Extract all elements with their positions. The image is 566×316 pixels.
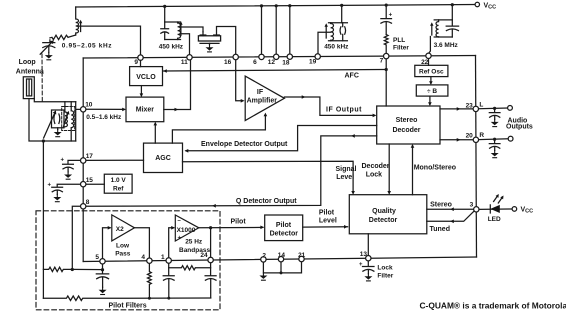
loop antenna symbol: [23, 77, 34, 99]
resonator right electrode: [214, 27, 236, 55]
terminal Vcc right: [512, 207, 517, 212]
ground below resonator: [209, 43, 211, 44]
wire pin 3 to Vcc via LED: [479, 208, 512, 210]
wire Pilot Level to Quality Detector: [303, 226, 348, 228]
transformer T1 arrow: [63, 114, 68, 128]
wire pin 10 to Mixer: [86, 108, 124, 110]
LED D1: [489, 205, 491, 213]
lock filter capacitor C6: [363, 261, 375, 274]
svg-text:Outputs: Outputs: [506, 124, 533, 131]
Vcc terminal top: [475, 2, 479, 6]
wires Vcc rail to pins 6 12 18: [261, 6, 263, 55]
svg-text:X2: X2: [116, 226, 124, 233]
pin 4: [147, 258, 152, 263]
svg-text:450 kHz: 450 kHz: [159, 43, 184, 50]
svg-text:12: 12: [268, 59, 276, 66]
svg-text:21: 21: [298, 252, 306, 259]
resistor R5 between pins 1 and 24: [169, 266, 211, 270]
op-amp IF Amplifier: [245, 76, 284, 120]
wire divider to Stereo Decoder: [429, 96, 431, 104]
node audio R cap junction: [493, 138, 496, 141]
450 kHz IF transformer T2: [164, 6, 166, 22]
wire Ref Osc to divider: [430, 77, 432, 84]
pin 3: [474, 207, 479, 212]
wire Decoder Lock: [388, 144, 390, 193]
block Quality Detector: [349, 195, 427, 234]
svg-text:Low: Low: [116, 243, 130, 250]
tuning capacitor C2 box: [52, 110, 65, 128]
terminal audio R: [508, 136, 513, 141]
svg-text:Stereo: Stereo: [430, 202, 452, 209]
svg-text:1: 1: [161, 254, 165, 261]
pin 15: [81, 182, 86, 187]
block AGC: [144, 143, 183, 172]
wire pin 22 to Ref Osc: [428, 58, 430, 65]
svg-text:22: 22: [421, 59, 429, 66]
wire tuned circuit right leg to pin 10: [76, 102, 81, 141]
pin 12: [274, 54, 279, 59]
node pilot junction above pin 24: [209, 226, 212, 229]
T3 capacitor plates: [340, 23, 346, 41]
pin 21: [299, 256, 304, 261]
LED light arrows: [494, 196, 498, 202]
IC outline right edge: [476, 56, 477, 258]
svg-text:2: 2: [262, 252, 266, 259]
svg-text:11: 11: [181, 59, 188, 66]
variable capacitor C1: [43, 40, 55, 53]
svg-text:9: 9: [134, 59, 138, 66]
svg-text:+: +: [61, 158, 65, 164]
svg-text:20: 20: [466, 133, 474, 140]
wire pin 1 up to X1000 input: [169, 228, 174, 258]
pin 7: [384, 53, 389, 58]
T4 coil: [436, 20, 439, 37]
svg-text:5: 5: [95, 254, 99, 261]
capacitor C5 audio R: [489, 139, 500, 150]
svg-text:18: 18: [282, 60, 290, 67]
svg-text:0.5–1.6 kHz: 0.5–1.6 kHz: [86, 114, 122, 121]
wire Stereo indicator to pin 3: [427, 208, 474, 210]
wire Quality Detector to pin 13: [367, 234, 369, 256]
svg-text:Pilot Filters: Pilot Filters: [109, 303, 147, 310]
T4 arrow: [431, 25, 433, 36]
pin 14: [278, 257, 283, 262]
wire T4 to pin 22: [429, 37, 431, 54]
svg-text:+: +: [359, 262, 363, 268]
wire X1000 output Pilot to Pilot Detector: [199, 226, 263, 228]
svg-text:X1000: X1000: [177, 227, 196, 234]
electrolytic cap C10 at pin 17: [63, 160, 86, 172]
wire Stereo Decoder to pin 23: [440, 108, 473, 110]
wire pin 23 to audio L terminal: [479, 107, 508, 110]
block Ref Osc: [415, 65, 448, 76]
svg-text:10: 10: [85, 101, 93, 108]
ground below pin 2: [259, 273, 267, 280]
svg-text:3: 3: [470, 201, 474, 208]
pin 8: [81, 204, 86, 209]
svg-text:PLL: PLL: [393, 37, 405, 44]
IC outline top edge: [83, 56, 475, 59]
ground below C5: [491, 150, 499, 157]
svg-text:AFC: AFC: [345, 72, 359, 79]
svg-text:Detector: Detector: [270, 230, 299, 237]
svg-text:VCLO: VCLO: [136, 74, 156, 81]
pin 17: [81, 158, 86, 163]
450 kHz IF transformer T3: [341, 5, 343, 22]
svg-text:Filter: Filter: [377, 273, 393, 280]
capacitor C9 below pin 24: [205, 258, 216, 298]
PLL filter capacitor C3: [385, 5, 387, 18]
T4 capacitor plates: [446, 20, 458, 37]
svg-text:Stereo: Stereo: [396, 117, 418, 124]
ground below C7: [99, 287, 107, 294]
svg-text:IF Output: IF Output: [326, 107, 362, 114]
wire Envelope Detector Output to AGC: [186, 126, 377, 151]
Vcc top rail: [76, 5, 475, 8]
svg-text:LED: LED: [488, 216, 501, 223]
wire pin 2 14 21 ground stubs: [263, 262, 301, 273]
pin 9: [138, 55, 143, 60]
wire antenna to tuned circuit top: [34, 99, 75, 102]
electrolytic cap C11 at pin 15: [52, 184, 86, 194]
svg-text:Lock: Lock: [366, 172, 382, 179]
wire Q Detector Output to pin 8: [86, 136, 377, 206]
svg-text:Pilot: Pilot: [319, 209, 335, 216]
svg-text:Pass: Pass: [115, 251, 131, 258]
svg-text:Bandpass: Bandpass: [179, 247, 210, 254]
wire VCLO to Mixer: [140, 86, 142, 96]
block 1.0V Ref: [104, 174, 132, 193]
wire Mixer output to pin 11: [164, 60, 191, 110]
svg-text:Quality: Quality: [372, 208, 396, 215]
svg-text:+: +: [48, 183, 52, 189]
resonator bottom plate: [200, 42, 219, 44]
wire Signal Level AGC to Quality Detector: [183, 161, 354, 193]
ground below C1: [45, 53, 53, 60]
block divide-by-B: [416, 85, 448, 96]
svg-text:16: 16: [224, 59, 232, 66]
IC outline bottom edge: [83, 257, 476, 262]
svg-text:−: −: [177, 218, 181, 224]
T2 arrow: [180, 24, 182, 36]
svg-text:7: 7: [380, 57, 384, 64]
svg-text:Mono/Stereo: Mono/Stereo: [414, 164, 456, 171]
wire X2 output to pin 4: [135, 228, 150, 258]
svg-text:Ref Osc: Ref Osc: [419, 69, 444, 76]
coil L1 tuning arrow: [80, 22, 82, 32]
svg-text:Filter: Filter: [393, 45, 409, 52]
svg-text:÷ B: ÷ B: [427, 88, 437, 95]
node pin5 cap junction: [101, 268, 104, 271]
block Stereo Decoder: [377, 106, 440, 144]
svg-text:R: R: [479, 132, 484, 139]
block VCLO: [130, 67, 163, 86]
T2 capacitor plates: [161, 22, 169, 40]
svg-text:Pilot: Pilot: [276, 222, 292, 229]
svg-text:L: L: [479, 102, 483, 109]
capacitor C4 audio L: [489, 108, 500, 119]
tuning capacitor C2 arrow: [44, 113, 55, 138]
pin 13: [366, 256, 371, 261]
svg-text:Antenna: Antenna: [16, 68, 44, 75]
pin 11: [187, 55, 192, 60]
wire T2 to pin 11: [181, 34, 190, 55]
svg-text:0.95–2.05 kHz: 0.95–2.05 kHz: [62, 43, 112, 50]
resistor R6 bottom row: [43, 296, 210, 301]
node bottom row joints: [148, 297, 151, 300]
svg-text:3.6 MHz: 3.6 MHz: [434, 42, 459, 49]
svg-text:Mixer: Mixer: [136, 107, 155, 114]
3.6 MHz oscillator tank T4: [451, 5, 453, 20]
svg-text:8: 8: [86, 199, 90, 206]
pin 2: [261, 257, 266, 262]
wire Mono/Stereo: [412, 146, 414, 195]
svg-text:Decoder: Decoder: [392, 127, 420, 134]
svg-text:14: 14: [278, 252, 286, 259]
svg-text:23: 23: [466, 102, 474, 109]
wire T3 to pin 19: [318, 32, 331, 54]
wire pilot junction to pin 24: [210, 228, 212, 258]
svg-text:13: 13: [360, 251, 368, 258]
terminal audio L: [508, 106, 513, 111]
svg-text:+: +: [389, 12, 393, 18]
svg-text:Amplifier: Amplifier: [247, 97, 278, 104]
resonator left electrode: [200, 32, 206, 36]
svg-text:IF: IF: [257, 89, 264, 96]
svg-text:15: 15: [86, 177, 94, 184]
wire T2 to ceramic resonator: [181, 27, 204, 32]
wire pin 8 external stub: [72, 206, 80, 269]
antenna transformer T1 dashed box: [62, 107, 75, 131]
wire Stereo Decoder to pin 20: [440, 139, 473, 141]
svg-text:1.0 V: 1.0 V: [111, 177, 127, 184]
T3 coil: [331, 23, 334, 41]
pin 5: [100, 259, 105, 264]
ceramic resonator Y1 body: [198, 36, 220, 41]
wire pin 20 to audio R terminal: [479, 138, 509, 141]
wire L1 to pin 9: [79, 26, 141, 55]
svg-text:Level: Level: [319, 217, 337, 224]
dashed box pilot filters: [36, 211, 220, 310]
wire pin 16 to IF Amplifier: [236, 60, 243, 101]
ground below C4: [491, 119, 499, 126]
svg-text:25 Hz: 25 Hz: [185, 238, 203, 245]
variable capacitor C1 arrow: [40, 42, 52, 54]
wire L1 bottom to resistor: [68, 35, 76, 37]
resistor R4 below pin 4: [147, 258, 151, 298]
wire pin 15 to 1.0V Ref: [86, 183, 104, 185]
svg-text:6: 6: [253, 59, 257, 66]
svg-text:Decoder: Decoder: [362, 163, 390, 170]
svg-text:Level: Level: [336, 174, 354, 181]
pin 24: [208, 257, 213, 262]
op-amp X1000 bandpass: [175, 215, 199, 241]
svg-text:VCC: VCC: [484, 2, 497, 10]
svg-text:Pilot: Pilot: [231, 219, 247, 226]
ground below C11: [53, 194, 61, 201]
wire pin 17 to AGC: [86, 159, 144, 161]
block Pilot Detector: [265, 215, 303, 241]
svg-text:Envelope Detector Output: Envelope Detector Output: [201, 141, 288, 148]
resistor R3 pilot row: [43, 267, 102, 271]
pin 22: [426, 53, 431, 58]
wire pin 5 up to X2 input: [103, 228, 111, 259]
pin 6: [259, 54, 264, 59]
wire IF Amplifier output to Stereo Decoder: [284, 97, 374, 115]
wire AGC to IF Amplifier: [172, 115, 265, 143]
tuning capacitor C2 plates: [54, 114, 60, 123]
ganged tuning dashed line: [41, 54, 43, 102]
transformer T1 secondary: [71, 102, 74, 141]
T3 arrow: [325, 26, 327, 39]
svg-text:Detector: Detector: [369, 217, 398, 224]
capacitor C8 below pin 1: [163, 258, 174, 298]
ground below C2: [57, 128, 59, 130]
wire AGC to Mixer: [154, 124, 156, 144]
svg-text:19: 19: [309, 59, 317, 66]
svg-text:VCC: VCC: [521, 207, 534, 215]
svg-text:Lock: Lock: [377, 264, 393, 271]
resistor R1: [50, 35, 68, 39]
pin 10: [81, 107, 86, 112]
op-amp X2 low pass: [112, 215, 135, 241]
ground below C10: [64, 172, 72, 179]
node antenna return junction: [42, 139, 45, 142]
block Mixer: [126, 97, 164, 122]
pin 16: [233, 54, 238, 59]
node pin8 branch junction: [71, 268, 74, 271]
svg-text:Loop: Loop: [19, 59, 36, 66]
svg-text:+: +: [178, 235, 182, 241]
svg-text:Ref: Ref: [113, 186, 124, 193]
wire pin 9 to VCLO: [140, 59, 142, 67]
oscillator coil L1 0.95-2.05: [76, 7, 79, 35]
wire Tuned indicator to pin 3: [427, 211, 475, 222]
T2 coil: [178, 22, 181, 40]
svg-text:C-QUAM® is a trademark of Moto: C-QUAM® is a trademark of Motorola.: [420, 300, 566, 310]
svg-text:AGC: AGC: [155, 155, 171, 162]
svg-text:Q Detector Output: Q Detector Output: [236, 198, 297, 205]
pin 23: [473, 106, 478, 111]
svg-text:Tuned: Tuned: [430, 226, 450, 233]
IC outline left edge: [82, 58, 84, 262]
pin 20: [473, 137, 478, 142]
svg-text:450 kHz: 450 kHz: [324, 43, 349, 50]
wire antenna return down left side: [42, 141, 44, 298]
wire antenna bottom return: [29, 99, 76, 141]
PLL filter resistor R2: [384, 35, 388, 55]
capacitor C7 below pin 5: [96, 259, 108, 288]
svg-text:4: 4: [141, 254, 145, 261]
transformer T1 primary: [65, 102, 68, 127]
wire pin 7 into Stereo Decoder: [385, 59, 387, 106]
node audio L cap junction: [493, 107, 496, 110]
svg-text:Signal: Signal: [336, 166, 357, 173]
pin 1: [166, 258, 171, 263]
ground below C6: [364, 274, 372, 281]
pin 18: [287, 54, 292, 59]
wire AFC to VCLO: [164, 70, 387, 72]
svg-text:17: 17: [86, 153, 94, 160]
pin 19: [315, 54, 320, 59]
